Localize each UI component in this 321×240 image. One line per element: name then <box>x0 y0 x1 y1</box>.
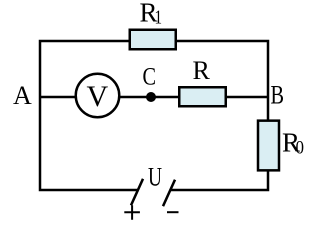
svg-text:0: 0 <box>296 138 305 159</box>
svg-text:V: V <box>87 80 109 113</box>
svg-text:A: A <box>13 81 32 110</box>
svg-text:R: R <box>193 56 211 85</box>
svg-text:B: B <box>271 81 285 110</box>
svg-text:1: 1 <box>155 7 163 29</box>
svg-text:U: U <box>148 162 162 191</box>
svg-text:C: C <box>143 64 157 91</box>
